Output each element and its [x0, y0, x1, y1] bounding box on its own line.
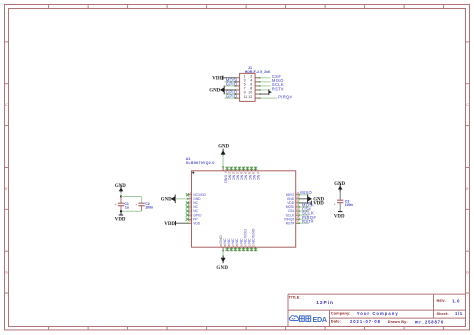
svg-text:11: 11	[244, 95, 248, 99]
IC U1 top pins	[222, 166, 261, 183]
svg-text:mr_258876: mr_258876	[415, 319, 444, 324]
connector J1 value HDR-F-2.5_2x6	[245, 70, 270, 74]
wire and net label PIRQ# at U1 right	[300, 215, 317, 220]
C1 designator	[124, 202, 129, 206]
wire and net label RST# at U1 right	[300, 219, 314, 224]
svg-text:100n: 100n	[345, 203, 353, 207]
wire and net label CS# at J1 right row 1	[260, 74, 281, 79]
svg-text:G: G	[5, 271, 8, 275]
ground flag GND above C3	[334, 182, 345, 192]
date value	[350, 319, 381, 324]
svg-text:+: +	[135, 203, 137, 207]
C3 designator	[345, 199, 350, 203]
wire and net label RST# at J1 right row 4	[260, 86, 284, 91]
ground flag at J1 pin 10	[260, 89, 272, 94]
title value 12Pin	[316, 300, 334, 306]
svg-text:GND: GND	[161, 197, 172, 202]
ground flag GND above C1	[115, 184, 126, 194]
rev value 1.0	[452, 298, 460, 303]
EasyEDA logo	[289, 315, 327, 324]
wire and net label MISO at U1 right	[300, 190, 313, 195]
power flag VDD at J1 pin 1	[212, 76, 234, 82]
svg-text:G: G	[466, 271, 469, 275]
wire and net label GPIO at J1 left row 6	[225, 94, 238, 99]
date label	[331, 319, 341, 324]
svg-text:GPIO: GPIO	[226, 94, 238, 99]
wire and net label PIRQ# at J1 pin 12	[260, 94, 293, 99]
company label	[331, 311, 351, 316]
power flag VDD at U1 right pin	[300, 201, 324, 207]
wire top C1 to C2	[121, 196, 142, 198]
wire and net label MOSI at U1 right	[300, 203, 314, 208]
svg-text:VDD: VDD	[164, 222, 175, 227]
IC U1 right pins	[284, 191, 300, 226]
wire and net label SCLK at J1 right row 3	[260, 82, 284, 87]
svg-text:RST#: RST#	[272, 86, 284, 91]
svg-text:VDD: VDD	[313, 202, 324, 207]
svg-text:1.0: 1.0	[452, 298, 460, 303]
svg-text:RST#: RST#	[286, 221, 295, 225]
wire and net label MISO at J1 right row 2	[260, 78, 284, 83]
power flag VDD below C3	[334, 212, 345, 220]
drawn-by value	[415, 319, 444, 324]
svg-text:GND: GND	[209, 89, 220, 94]
rev label	[437, 299, 446, 303]
drawn-by label	[388, 320, 408, 324]
C3 value 100n	[345, 203, 353, 207]
svg-text:1u: 1u	[125, 206, 129, 210]
IC U1 designator	[186, 157, 191, 161]
IC U1 left pins 1-8	[186, 191, 207, 226]
capacitor C1	[115, 197, 125, 212]
svg-text:SLB9670VQ2.0: SLB9670VQ2.0	[186, 161, 215, 165]
C2 designator	[145, 202, 150, 206]
ground flag GND at J1 pin 7	[209, 86, 234, 95]
svg-text:E: E	[5, 187, 8, 191]
IC U1 value SLB9670VQ2.0	[186, 161, 215, 165]
connector J1 pins 1-12	[234, 75, 261, 99]
svg-text:PIRQ#: PIRQ#	[278, 94, 292, 99]
svg-text:12: 12	[248, 95, 252, 99]
svg-text:RST#: RST#	[302, 219, 314, 224]
wire and net label GPIO at J1 left row 3	[225, 82, 238, 87]
svg-text:GPIO: GPIO	[226, 82, 238, 87]
ground flag GND at U1 top pin 9	[218, 144, 229, 166]
svg-text:Drawn By:: Drawn By:	[388, 320, 408, 324]
title label	[289, 295, 301, 299]
svg-text:NC/GND: NC/GND	[250, 228, 255, 244]
svg-text:VDD: VDD	[193, 221, 201, 225]
svg-text:MISO: MISO	[300, 190, 312, 195]
C1 value 1u	[125, 206, 129, 210]
svg-text:GND: GND	[216, 266, 228, 271]
power flag VDD at U1 left pin 8	[164, 221, 187, 227]
sheet value 1/1	[455, 311, 463, 316]
capacitor C3	[334, 200, 344, 211]
svg-text:Your Company: Your Company	[357, 311, 399, 316]
svg-text:C: C	[466, 103, 469, 107]
svg-text:VDD: VDD	[212, 76, 223, 81]
svg-text:100n: 100n	[145, 206, 153, 210]
svg-text:E: E	[466, 187, 469, 191]
junction dot top	[120, 195, 122, 197]
svg-text:Date:: Date:	[331, 319, 341, 324]
sheet label	[437, 312, 449, 316]
power flag VDD below C1	[115, 211, 126, 223]
wire bottom C2 to C1	[121, 210, 142, 212]
company value	[357, 311, 399, 316]
svg-text:EDA: EDA	[313, 315, 327, 324]
C2 value 100n	[145, 206, 153, 210]
wire C2 top drop	[141, 197, 143, 204]
wire and net label SCLK at U1 right	[300, 211, 314, 216]
svg-text:12Pin: 12Pin	[316, 300, 334, 306]
connector J1 body	[240, 73, 256, 101]
wire GND to C1	[120, 192, 122, 196]
svg-text:Sheet:: Sheet:	[437, 312, 449, 316]
svg-text:1/1: 1/1	[455, 311, 463, 316]
wire and net label CS# at U1 right	[300, 207, 312, 212]
wire GND to C3	[339, 190, 341, 200]
capacitor C2	[135, 203, 145, 211]
title block lines	[288, 294, 466, 326]
ground flag GND at U1 right pin	[300, 195, 325, 204]
svg-text:VDD: VDD	[334, 214, 345, 219]
ground flag GND at U1 bottom pin 30	[216, 251, 228, 271]
wire and net label GPIO at J1 left row 5	[225, 90, 238, 95]
connector J1 designator	[248, 66, 252, 70]
ground flag GND at U1 left pin 2	[161, 195, 187, 204]
wire and net label MOSI at J1 left row 2	[225, 77, 238, 82]
svg-text:+: +	[334, 202, 336, 206]
svg-text:REV:: REV:	[437, 299, 446, 303]
svg-text:9: 9	[223, 172, 226, 174]
svg-text:TITLE:: TITLE:	[289, 295, 301, 299]
IC U1 bottom pins	[218, 228, 257, 251]
svg-text:2021-07-08: 2021-07-08	[350, 319, 381, 324]
svg-text:VDD: VDD	[115, 218, 126, 223]
svg-text:+: +	[115, 203, 117, 207]
svg-text:NC: NC	[256, 175, 261, 181]
IC U1 body	[192, 171, 296, 247]
svg-text:C: C	[5, 103, 8, 107]
svg-text:Company:: Company:	[331, 311, 351, 316]
svg-text:GND: GND	[218, 144, 229, 149]
junction dot bottom	[120, 210, 122, 212]
